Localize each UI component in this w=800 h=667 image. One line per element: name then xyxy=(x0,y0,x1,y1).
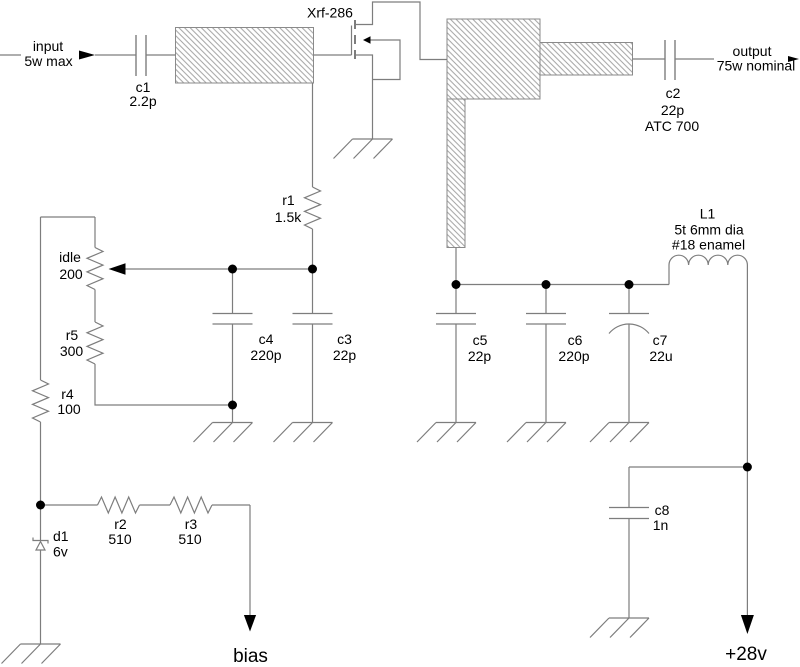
svg-text:c4: c4 xyxy=(259,331,274,347)
svg-text:6v: 6v xyxy=(53,544,68,560)
svg-text:c7: c7 xyxy=(653,332,668,348)
svg-text:1n: 1n xyxy=(653,517,669,533)
svg-text:r3: r3 xyxy=(185,516,198,532)
svg-text:L1: L1 xyxy=(700,206,716,222)
svg-text:5w max: 5w max xyxy=(24,53,72,69)
svg-text:510: 510 xyxy=(108,531,132,547)
svg-text:100: 100 xyxy=(57,401,81,417)
svg-text:1.5k: 1.5k xyxy=(275,209,302,225)
svg-text:#18 enamel: #18 enamel xyxy=(672,237,745,253)
svg-text:bias: bias xyxy=(233,646,268,667)
svg-text:c2: c2 xyxy=(666,85,681,101)
svg-text:c8: c8 xyxy=(655,502,670,518)
svg-text:input: input xyxy=(33,38,63,54)
svg-text:c6: c6 xyxy=(568,332,583,348)
svg-text:+28v: +28v xyxy=(725,644,767,665)
svg-text:5t 6mm dia: 5t 6mm dia xyxy=(674,222,743,238)
svg-text:220p: 220p xyxy=(558,348,589,364)
svg-text:c3: c3 xyxy=(337,331,352,347)
svg-text:75w nominal: 75w nominal xyxy=(717,58,796,74)
svg-text:r5: r5 xyxy=(66,327,79,343)
svg-text:Xrf-286: Xrf-286 xyxy=(307,5,353,21)
svg-text:idle: idle xyxy=(59,249,81,265)
svg-text:ATC 700: ATC 700 xyxy=(645,118,699,134)
svg-text:22p: 22p xyxy=(333,347,357,363)
svg-text:22u: 22u xyxy=(649,348,672,364)
svg-text:r2: r2 xyxy=(114,516,127,532)
svg-text:c5: c5 xyxy=(473,332,488,348)
svg-text:r4: r4 xyxy=(61,386,74,402)
svg-text:22p: 22p xyxy=(468,348,492,364)
svg-text:d1: d1 xyxy=(53,528,69,544)
svg-text:300: 300 xyxy=(60,343,84,359)
svg-text:200: 200 xyxy=(59,266,83,282)
svg-text:220p: 220p xyxy=(250,347,281,363)
svg-text:510: 510 xyxy=(178,531,202,547)
svg-text:r1: r1 xyxy=(282,192,295,208)
svg-text:2.2p: 2.2p xyxy=(129,93,156,109)
svg-text:22p: 22p xyxy=(661,102,685,118)
